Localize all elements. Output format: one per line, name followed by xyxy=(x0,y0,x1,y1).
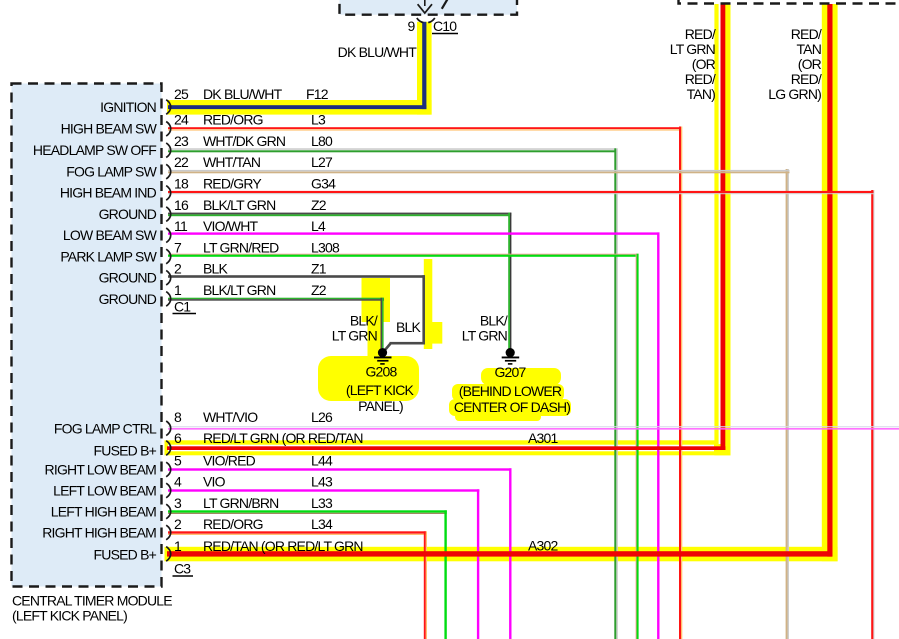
svg-text:A301: A301 xyxy=(528,430,559,446)
svg-text:C3: C3 xyxy=(174,561,191,577)
svg-text:LEFT HIGH BEAM: LEFT HIGH BEAM xyxy=(51,504,156,520)
svg-text:18: 18 xyxy=(174,176,189,192)
svg-text:(OR: (OR xyxy=(798,56,822,72)
svg-text:2: 2 xyxy=(174,516,182,532)
svg-text:C1: C1 xyxy=(174,299,191,315)
label CENTRAL TIMER MODULE xyxy=(12,593,172,624)
svg-text:G34: G34 xyxy=(311,176,336,192)
svg-text:L33: L33 xyxy=(311,495,333,511)
svg-text:WHT/DK GRN: WHT/DK GRN xyxy=(203,133,285,149)
label BLK/LT GRN at G208 xyxy=(332,313,378,344)
wire L80 WHT/DK GRN pin 23 xyxy=(168,148,618,639)
wire L34 RED/ORG pin 2 xyxy=(168,531,427,639)
highlighter: yellow band on DK BLU/WHT wire xyxy=(167,22,432,115)
svg-text:GROUND: GROUND xyxy=(99,270,157,286)
wire L27 WHT/TAN vertical pin 22 xyxy=(786,169,789,639)
svg-text:RED/ORG: RED/ORG xyxy=(203,112,263,128)
svg-text:LOW BEAM SW: LOW BEAM SW xyxy=(63,227,158,243)
svg-text:RED/: RED/ xyxy=(685,26,716,42)
svg-text:L26: L26 xyxy=(311,409,333,425)
svg-text:L27: L27 xyxy=(311,154,333,170)
wire L4 VIO/WHT pin 11 xyxy=(168,232,660,639)
svg-text:1: 1 xyxy=(174,282,182,298)
svg-text:Z2: Z2 xyxy=(311,282,327,298)
svg-text:RED/ORG: RED/ORG xyxy=(203,516,263,532)
connector box C10 (top) xyxy=(340,0,518,15)
row label pin 2 C3 xyxy=(174,516,333,532)
svg-text:L34: L34 xyxy=(311,516,333,532)
row label pin 6 + node A301 xyxy=(174,430,559,446)
svg-text:WHT/VIO: WHT/VIO xyxy=(203,409,258,425)
wire L44 VIO/RED pin 5 xyxy=(168,468,512,639)
row label pin 4 xyxy=(174,474,333,490)
svg-text:Z1: Z1 xyxy=(311,261,327,277)
labels right wire A301 xyxy=(670,26,716,102)
svg-text:RIGHT HIGH BEAM: RIGHT HIGH BEAM xyxy=(42,525,156,541)
wire G34 RED/GRY vertical pin 18 xyxy=(871,190,874,639)
svg-text:TAN): TAN) xyxy=(687,86,716,102)
row label pin 22 xyxy=(174,154,333,170)
label C1 xyxy=(173,299,197,315)
svg-text:GROUND: GROUND xyxy=(99,291,157,307)
svg-text:23: 23 xyxy=(174,133,189,149)
wire L3 RED/ORG pin 24 xyxy=(168,127,682,639)
module pin name labels C1 xyxy=(33,99,158,307)
svg-text:11: 11 xyxy=(174,218,188,234)
svg-text:BLK/: BLK/ xyxy=(350,313,378,329)
svg-text:L308: L308 xyxy=(311,240,340,256)
svg-text:(LEFT KICK: (LEFT KICK xyxy=(346,382,415,398)
connector box (top right) xyxy=(679,0,899,4)
label BLK/LT GRN at G207 xyxy=(462,313,508,344)
svg-text:TAN: TAN xyxy=(796,41,821,57)
svg-text:RED/: RED/ xyxy=(791,71,822,87)
svg-text:RED/: RED/ xyxy=(791,26,822,42)
svg-text:VIO/WHT: VIO/WHT xyxy=(203,218,259,234)
row label pin 8 xyxy=(174,409,333,425)
row label pin 11 xyxy=(174,218,326,234)
svg-text:22: 22 xyxy=(174,154,189,170)
row label pin 1 C3 + node A302 xyxy=(174,538,559,555)
svg-text:4: 4 xyxy=(174,474,182,490)
svg-text:WHT/TAN: WHT/TAN xyxy=(203,154,260,170)
svg-text:LG GRN): LG GRN) xyxy=(768,86,821,102)
wire L33 LT GRN/BRN pin 3 xyxy=(168,510,447,639)
row label pin 3 xyxy=(174,495,333,511)
highlighter: yellow band on A301 wire xyxy=(165,4,731,455)
svg-text:8: 8 xyxy=(174,409,182,425)
connector pin arcs C1 xyxy=(166,100,171,307)
svg-text:RED/: RED/ xyxy=(685,71,716,87)
label G208 LEFT KICK PANEL xyxy=(346,364,415,415)
row label pin 18 xyxy=(174,176,336,192)
wire Z2 BLK/LT GRN pin 1 to G208 xyxy=(168,298,384,349)
labels right wire A302 xyxy=(768,26,822,102)
svg-text:G208: G208 xyxy=(365,364,397,380)
label C10 xyxy=(432,18,458,34)
white channel inside A301 highlight xyxy=(168,4,721,451)
svg-text:(LEFT KICK PANEL): (LEFT KICK PANEL) xyxy=(12,608,127,624)
svg-text:24: 24 xyxy=(174,112,189,128)
svg-text:LEFT LOW BEAM: LEFT LOW BEAM xyxy=(53,483,156,499)
row label pin 5 xyxy=(174,453,333,469)
svg-text:VIO: VIO xyxy=(203,474,226,490)
svg-text:L4: L4 xyxy=(311,218,326,234)
svg-text:PANEL): PANEL) xyxy=(358,398,403,414)
svg-text:LT GRN: LT GRN xyxy=(670,41,715,57)
wire L43 VIO pin 4 xyxy=(168,489,479,639)
svg-text:5: 5 xyxy=(174,453,182,469)
svg-text:VIO/RED: VIO/RED xyxy=(203,453,256,469)
svg-text:BLK/LT GRN: BLK/LT GRN xyxy=(203,197,275,213)
svg-text:BLK/LT GRN: BLK/LT GRN xyxy=(203,282,275,298)
svg-text:7: 7 xyxy=(174,240,182,256)
svg-text:FOG LAMP SW: FOG LAMP SW xyxy=(66,164,157,180)
ground G208 xyxy=(374,348,392,365)
wire A301 RED/LT GRN pin 6 xyxy=(167,4,725,450)
row label pin 25 xyxy=(174,86,329,102)
connector pin arcs C3 xyxy=(166,421,171,561)
svg-text:FUSED B+: FUSED B+ xyxy=(94,547,157,563)
row label pin 16 xyxy=(174,197,327,213)
svg-text:G207: G207 xyxy=(494,364,526,380)
svg-text:BLK/: BLK/ xyxy=(480,313,508,329)
svg-text:1: 1 xyxy=(174,538,182,554)
svg-text:L43: L43 xyxy=(311,474,333,490)
module box: Central Timer Module xyxy=(12,84,162,587)
wire L26 WHT/VIO pin 8 xyxy=(168,426,899,429)
row label pin 7 xyxy=(174,240,340,256)
svg-text:L80: L80 xyxy=(311,133,333,149)
wire L308 LT GRN/RED pin 7 xyxy=(168,254,639,639)
svg-text:CENTRAL TIMER MODULE: CENTRAL TIMER MODULE xyxy=(12,593,172,609)
highlighter: yellow band on BLK ground wire xyxy=(424,259,443,349)
row label pin 1 C1 xyxy=(174,282,327,298)
wire Z1 BLK pin 2 to ground junction xyxy=(168,275,425,350)
svg-text:9: 9 xyxy=(408,18,416,34)
svg-text:25: 25 xyxy=(174,86,189,102)
svg-text:L44: L44 xyxy=(311,453,333,469)
wire F12 DK BLU/WHT pin 25 xyxy=(168,22,426,109)
label G207 BEHIND LOWER CENTER OF DASH xyxy=(454,364,570,415)
svg-text:RED/LT GRN (OR RED/TAN: RED/LT GRN (OR RED/TAN xyxy=(203,430,363,446)
row label pin 24 xyxy=(174,112,326,128)
svg-text:GROUND: GROUND xyxy=(99,206,157,222)
wire A302 RED/TAN pin 1 xyxy=(167,4,833,557)
svg-text:(OR: (OR xyxy=(692,56,716,72)
svg-text:FOG LAMP CTRL: FOG LAMP CTRL xyxy=(54,421,157,437)
svg-text:RED/GRY: RED/GRY xyxy=(203,176,262,192)
svg-text:FUSED B+: FUSED B+ xyxy=(94,443,157,459)
svg-text:RIGHT LOW BEAM: RIGHT LOW BEAM xyxy=(45,462,157,478)
svg-text:F12: F12 xyxy=(306,86,329,102)
wire L27 WHT/TAN horizontal pin 22 xyxy=(168,170,790,173)
svg-text:HIGH BEAM IND: HIGH BEAM IND xyxy=(60,185,157,201)
svg-text:2: 2 xyxy=(174,261,182,277)
svg-text:IGNITION: IGNITION xyxy=(100,99,156,115)
svg-text:6: 6 xyxy=(174,430,182,446)
row label pin 2 C1 xyxy=(174,261,327,277)
highlighter: yellow blob on G208 label xyxy=(318,356,419,401)
svg-text:LT GRN/RED: LT GRN/RED xyxy=(203,240,279,256)
svg-text:(BEHIND LOWER: (BEHIND LOWER xyxy=(459,383,562,399)
highlighter: yellow blob on G207 label xyxy=(449,368,571,421)
svg-text:RED/TAN (OR RED/LT GRN: RED/TAN (OR RED/LT GRN xyxy=(203,538,363,554)
arrow into connector C10 xyxy=(418,0,448,13)
wire Z2 BLK/LT GRN pin 16 to G207 xyxy=(168,213,511,349)
ground G207 xyxy=(502,348,520,365)
svg-text:LT GRN: LT GRN xyxy=(462,328,507,344)
highlighter: yellow band on BLK/LT GRN ground wire xyxy=(362,278,391,358)
svg-text:HEADLAMP SW OFF: HEADLAMP SW OFF xyxy=(33,142,156,158)
highlighter: yellow band on A302 wire xyxy=(165,4,838,561)
svg-text:Z2: Z2 xyxy=(311,197,327,213)
svg-text:PARK LAMP SW: PARK LAMP SW xyxy=(60,249,157,265)
svg-text:C10: C10 xyxy=(433,18,457,34)
svg-text:HIGH BEAM SW: HIGH BEAM SW xyxy=(61,121,158,137)
svg-text:LT GRN/BRN: LT GRN/BRN xyxy=(203,495,279,511)
svg-text:CENTER OF DASH): CENTER OF DASH) xyxy=(454,399,570,415)
svg-text:DK BLU/WHT: DK BLU/WHT xyxy=(338,44,418,60)
svg-text:DK BLU/WHT: DK BLU/WHT xyxy=(203,86,283,102)
module pin name labels C3 xyxy=(42,421,157,563)
svg-text:L3: L3 xyxy=(311,112,326,128)
connector symbol pin 9 C10 xyxy=(417,18,435,23)
wire G34 RED/GRY horizontal pin 18 xyxy=(168,191,874,194)
svg-text:16: 16 xyxy=(174,197,189,213)
svg-text:BLK: BLK xyxy=(203,261,229,277)
row label pin 23 xyxy=(174,133,333,149)
svg-text:BLK: BLK xyxy=(396,319,422,335)
svg-text:3: 3 xyxy=(174,495,182,511)
svg-text:A302: A302 xyxy=(528,538,559,554)
label C3 xyxy=(173,561,194,577)
svg-text:LT GRN: LT GRN xyxy=(332,328,377,344)
